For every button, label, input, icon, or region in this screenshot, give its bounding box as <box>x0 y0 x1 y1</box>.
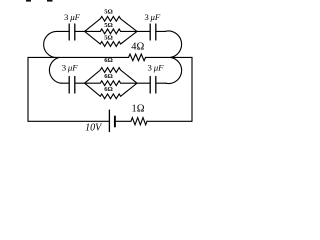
svg-text:6Ω: 6Ω <box>104 86 113 93</box>
svg-text:3 μF: 3 μF <box>62 63 79 73</box>
svg-text:5Ω: 5Ω <box>104 22 113 29</box>
svg-text:3 μF: 3 μF <box>64 12 81 22</box>
svg-text:5Ω: 5Ω <box>104 9 113 16</box>
svg-text:10V: 10V <box>85 123 103 134</box>
svg-text:6Ω: 6Ω <box>104 57 113 64</box>
svg-text:1Ω: 1Ω <box>131 104 144 115</box>
svg-text:3 μF: 3 μF <box>144 12 161 22</box>
svg-text:4Ω: 4Ω <box>131 42 144 53</box>
svg-text:5Ω: 5Ω <box>104 35 113 42</box>
svg-text:3 μF: 3 μF <box>148 63 165 73</box>
svg-text:6Ω: 6Ω <box>104 73 113 80</box>
